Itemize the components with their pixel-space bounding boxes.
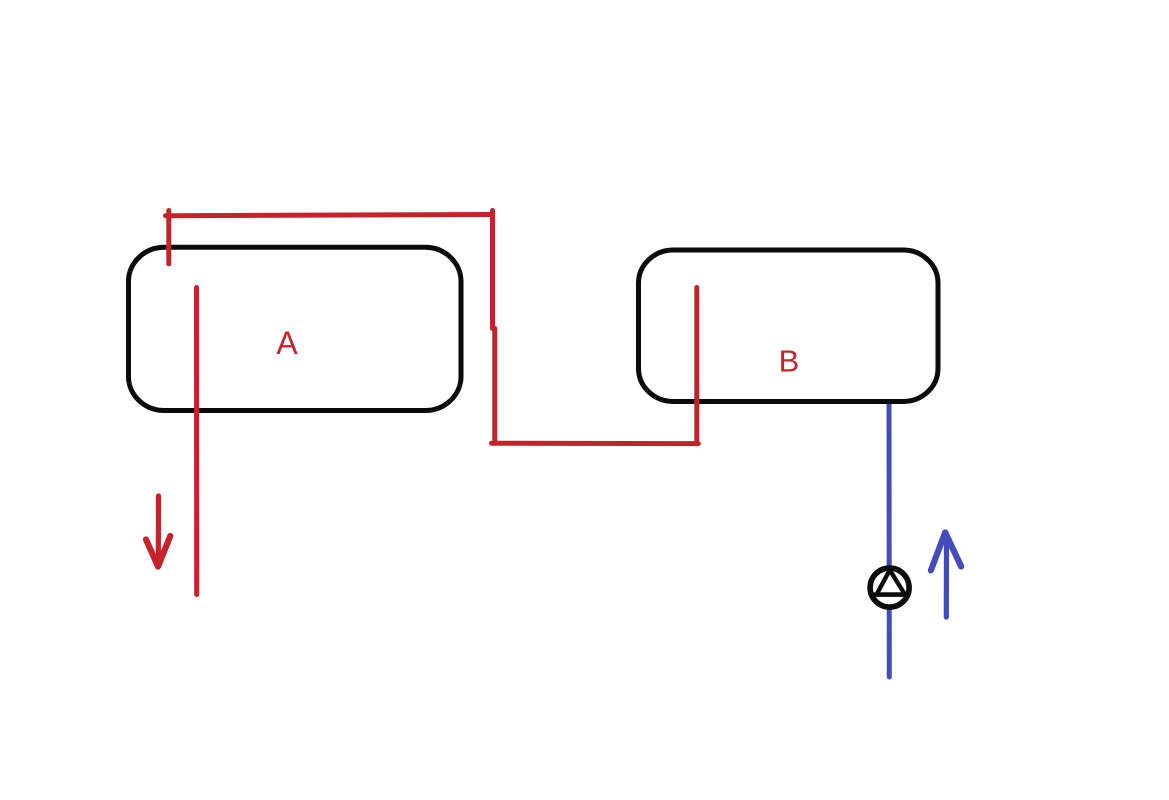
svg-text:B: B: [779, 343, 800, 378]
svg-text:A: A: [276, 325, 298, 361]
